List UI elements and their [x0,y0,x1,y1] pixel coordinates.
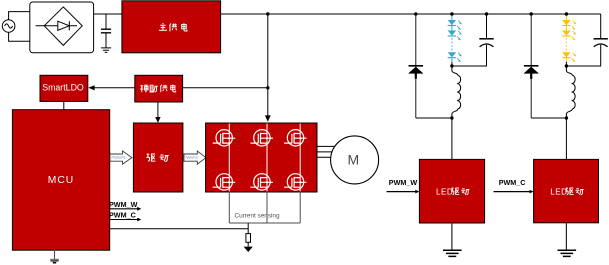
svg-text:PWM*6: PWM*6 [111,155,126,160]
svg-text:PWM_W: PWM_W [109,200,138,209]
svg-text:LED: LED [436,187,453,196]
svg-text:PWM_W: PWM_W [389,178,418,187]
svg-text:SmartLDO: SmartLDO [42,83,84,93]
svg-text:PWM*6: PWM*6 [184,155,199,160]
svg-text:PWM_C: PWM_C [499,178,526,187]
svg-text:PWM_C: PWM_C [109,211,136,220]
svg-text:MCU: MCU [48,175,74,186]
svg-text:M: M [347,151,359,167]
svg-text:LED: LED [550,187,567,196]
svg-text:Current sensing: Current sensing [235,213,280,220]
